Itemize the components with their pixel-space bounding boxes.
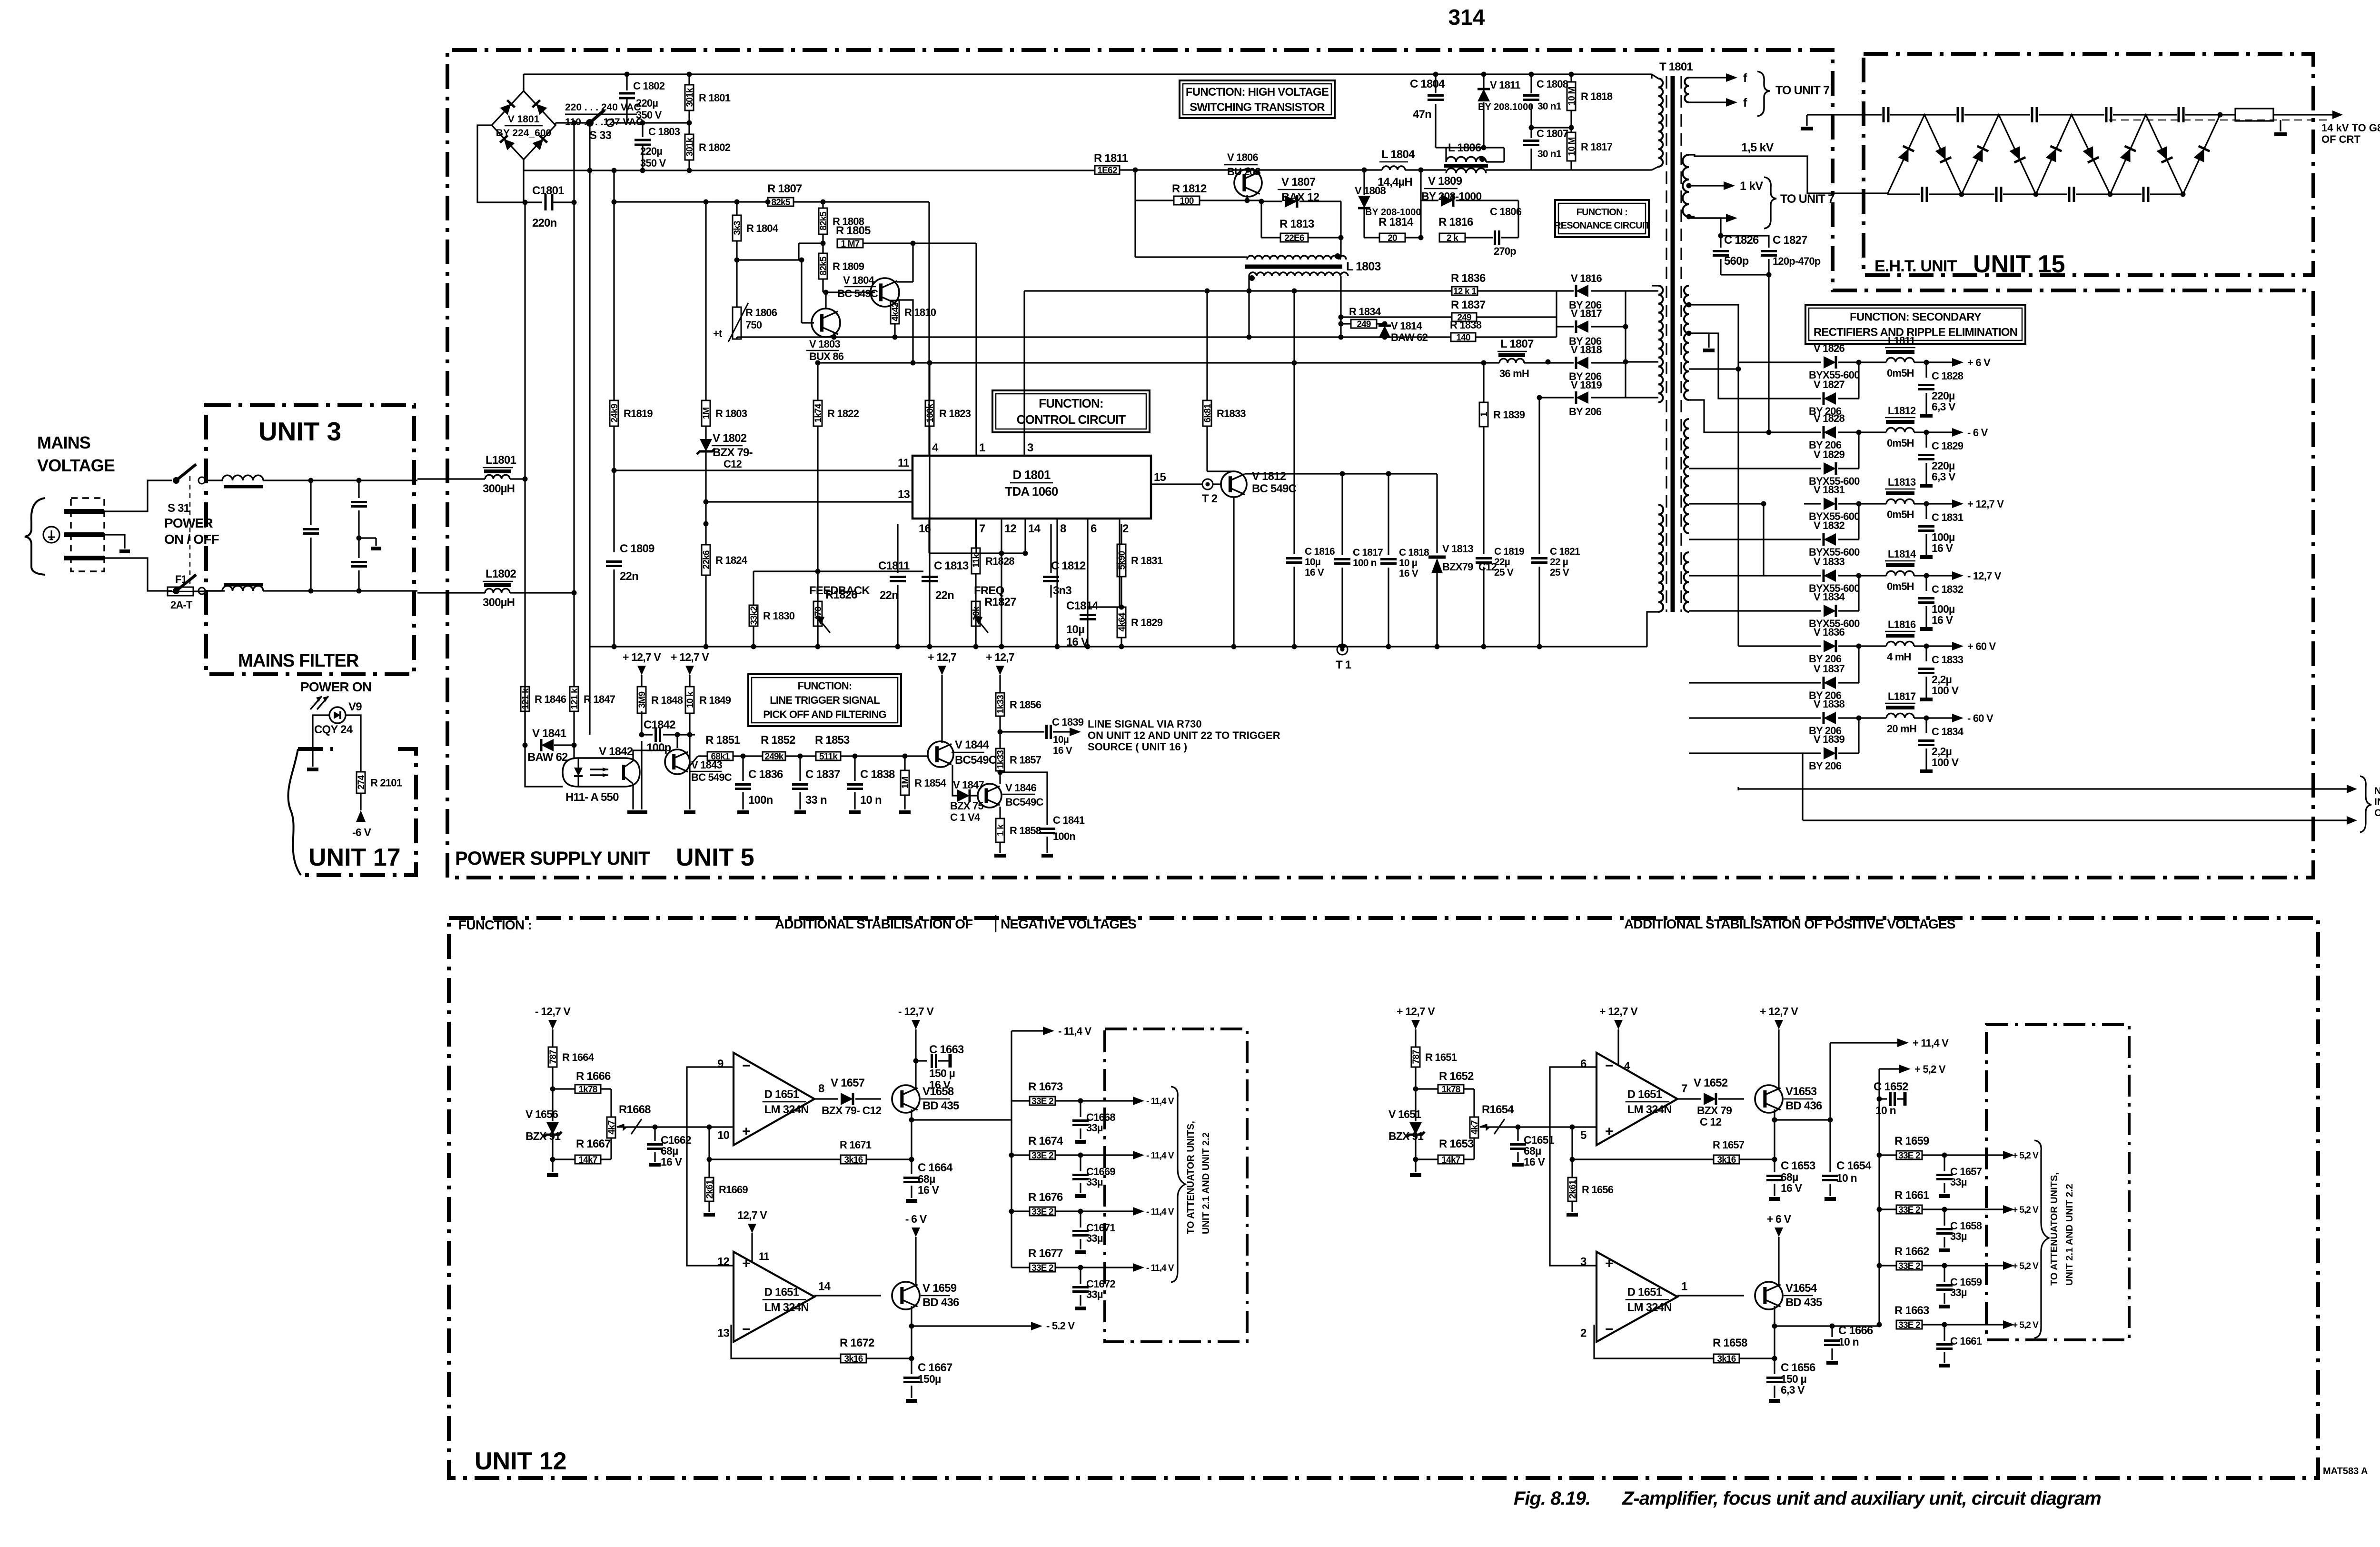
svg-text:R 1846: R 1846 [535, 693, 566, 705]
resistor R1817 [1567, 132, 1576, 161]
svg-text:12 k 1: 12 k 1 [1453, 287, 1477, 297]
svg-text:274: 274 [357, 775, 367, 790]
capacitor C 1659 33u [1944, 1266, 1945, 1282]
svg-text:100 V: 100 V [1932, 684, 1959, 697]
svg-text:RESONANCE CIRCUIT: RESONANCE CIRCUIT [1554, 220, 1650, 231]
optocoupler V1842 H11-A550 [563, 758, 640, 787]
svg-text:R 1805: R 1805 [836, 224, 871, 237]
svg-text:C 1837: C 1837 [805, 768, 840, 781]
svg-text:22n: 22n [620, 570, 638, 583]
svg-text:IN PM 3264: IN PM 3264 [2374, 797, 2380, 808]
wire V1843 emitter to divider [687, 768, 698, 769]
wire not-used output 2 [1802, 753, 1803, 820]
svg-text:V 1651: V 1651 [1388, 1108, 1421, 1120]
svg-text:LM 324N: LM 324N [764, 1301, 809, 1314]
svg-text:FUNCTION: SECONDARY: FUNCTION: SECONDARY [1850, 310, 1982, 323]
svg-text:16 V: 16 V [929, 1078, 951, 1091]
svg-text:SOURCE ( UNIT 16 ): SOURCE ( UNIT 16 ) [1088, 741, 1187, 753]
svg-text:V 1657: V 1657 [831, 1077, 865, 1089]
svg-text:C 1812: C 1812 [1051, 559, 1086, 572]
resistor R1833 [1206, 291, 1208, 400]
ground stub on secondary [1689, 332, 1709, 334]
svg-text:140: 140 [1456, 333, 1470, 343]
transistor V1844 BC549C [928, 741, 953, 767]
svg-text:787: 787 [1411, 1050, 1421, 1064]
svg-text:C1814: C1814 [1066, 599, 1099, 612]
IC D1801 TDA1060 [912, 456, 1151, 519]
svg-text:CONTROL CIRCUIT: CONTROL CIRCUIT [1017, 412, 1126, 427]
svg-text:301k: 301k [685, 88, 695, 107]
svg-text:V 1813: V 1813 [1442, 543, 1473, 555]
EHT multiplier diode [2120, 146, 2136, 162]
svg-text:11: 11 [759, 1250, 769, 1262]
svg-text:- 12,7 V: - 12,7 V [535, 1005, 571, 1018]
svg-text:R 1838: R 1838 [1450, 319, 1482, 331]
resistor R1846 [525, 676, 526, 687]
svg-text:ADDITIONAL STABILISATION OF: ADDITIONAL STABILISATION OF POSITIVE VOL… [1624, 917, 1955, 931]
svg-text:TO UNIT 7: TO UNIT 7 [1780, 192, 1834, 206]
svg-text:+ 5,2 V: + 5,2 V [2013, 1320, 2039, 1330]
capacitor C1656 150u 6,3V [1774, 1358, 1775, 1374]
svg-text:1k78: 1k78 [578, 1085, 597, 1095]
svg-text:R 1674: R 1674 [1028, 1135, 1063, 1148]
svg-text:33µ: 33µ [1086, 1288, 1103, 1300]
svg-text:220n: 220n [532, 217, 557, 230]
resistor R1831 [1117, 544, 1126, 577]
svg-text:R 1858: R 1858 [1010, 825, 1041, 837]
svg-text:R 1851: R 1851 [705, 734, 740, 747]
resistor R1824 [704, 521, 709, 527]
svg-text:T 1801: T 1801 [1659, 60, 1693, 73]
svg-text:UNIT 5: UNIT 5 [676, 844, 754, 871]
wire feedback row [754, 570, 923, 572]
resistor R1672 3k16 [911, 1326, 912, 1358]
EHT multiplier diode [2156, 146, 2173, 163]
EHT multiplier diode [1972, 146, 1989, 163]
svg-text:33µ: 33µ [1950, 1230, 1967, 1242]
svg-text:VOLTAGE: VOLTAGE [37, 456, 115, 475]
inductor L1806 lower winding in rail [1446, 169, 1486, 174]
capacitor C1667 150u [911, 1358, 912, 1374]
resistor R1809 [822, 243, 823, 253]
svg-text:BY 224_600: BY 224_600 [496, 128, 551, 139]
capacitor C 1661 33u [1944, 1325, 1945, 1341]
wire mains into PSU upper [417, 478, 485, 479]
svg-text:C 1654: C 1654 [1836, 1159, 1872, 1172]
transistor V1659 BD436 [814, 1295, 881, 1296]
svg-text:V 1652: V 1652 [1694, 1077, 1728, 1089]
UNIT 3 filter capacitor 3 [359, 537, 376, 539]
capacitor C1666 10n [1830, 1324, 1835, 1329]
function box HIGH VOLTAGE SWITCHING TRANSISTOR [1180, 80, 1335, 118]
svg-text:16 V: 16 V [1053, 745, 1072, 756]
wire emitter node [911, 1109, 912, 1120]
svg-text:10µ: 10µ [1305, 557, 1320, 568]
svg-text:33E 2: 33E 2 [1898, 1151, 1920, 1161]
wire 1.5 kV output [1689, 155, 1887, 193]
output arrow - 60 V [1926, 717, 1954, 719]
EHT output arrow 14kV [2273, 114, 2332, 115]
svg-text:R 1824: R 1824 [715, 554, 748, 566]
svg-text:16 V: 16 V [1524, 1156, 1546, 1168]
svg-text:C1811: C1811 [878, 559, 910, 572]
svg-text:OSCILLOSCO: OSCILLOSCO [2374, 808, 2380, 818]
wire +5.2V arrow [1944, 1208, 2005, 1210]
svg-text:12: 12 [717, 1256, 730, 1268]
svg-text:R 1837: R 1837 [1451, 299, 1486, 311]
svg-text:R1654: R1654 [1482, 1103, 1514, 1116]
svg-text:C 1833: C 1833 [1932, 654, 1963, 666]
svg-text:V 1809: V 1809 [1428, 175, 1462, 188]
resistor R1854 [902, 754, 908, 759]
capacitor C1841 [1000, 772, 1047, 825]
svg-text:+: + [742, 1124, 750, 1139]
svg-text:1M: 1M [901, 777, 911, 789]
svg-text:V 1816: V 1816 [1571, 272, 1602, 284]
svg-text:220 . . . 240 VAC: 220 . . . 240 VAC [565, 102, 641, 113]
svg-text:R 1809: R 1809 [833, 260, 864, 272]
diode V1811 BY208-1000 [1483, 74, 1484, 88]
svg-text:C 1663: C 1663 [929, 1043, 964, 1056]
svg-text:V 1837: V 1837 [1814, 663, 1844, 675]
filter inductor L1817 [1859, 717, 1886, 719]
svg-text:FUNCTION:: FUNCTION: [798, 680, 852, 692]
wire C1801 right vertical [573, 123, 575, 687]
svg-text:+ 12,7 V: + 12,7 V [671, 651, 709, 663]
wire C1807/R1818 mid node [1531, 127, 1571, 128]
svg-text:BZX 91: BZX 91 [1388, 1130, 1424, 1142]
test point T2 [1202, 479, 1213, 489]
mains plug dashed outline [71, 498, 104, 571]
svg-text:C 1804: C 1804 [1410, 78, 1445, 90]
svg-text:R 1806: R 1806 [745, 307, 777, 319]
ground [1939, 1364, 1950, 1367]
svg-text:MAINS: MAINS [37, 433, 90, 452]
svg-text:PICK OFF AND FILTERING: PICK OFF AND FILTERING [763, 709, 886, 720]
svg-text:4 mH: 4 mH [1887, 651, 1911, 663]
wire to IC pin 3 [1023, 291, 1025, 456]
svg-text:C 1656: C 1656 [1781, 1361, 1815, 1374]
svg-text:V 1833: V 1833 [1814, 556, 1844, 568]
svg-text:R 1659: R 1659 [1894, 1135, 1929, 1148]
svg-text:C 1829: C 1829 [1932, 440, 1963, 452]
svg-text:10 µ: 10 µ [1399, 558, 1417, 569]
UNIT 17 dash-dot border [305, 749, 416, 875]
svg-text:R 1839: R 1839 [1493, 409, 1525, 421]
svg-text:UNIT 3: UNIT 3 [258, 417, 341, 446]
svg-text:RECTIFIERS AND RIPPLE ELIMI: RECTIFIERS AND RIPPLE ELIMINATION [1814, 326, 2017, 339]
svg-text:47n: 47n [1413, 108, 1431, 121]
svg-text:C 1838: C 1838 [860, 768, 895, 781]
E.H.T. UNIT 15 dash-dot border [1864, 54, 2313, 275]
svg-text:Z-amplifier, focus unit and au: Z-amplifier, focus unit and auxiliary un… [1622, 1488, 2101, 1509]
svg-text:C 1813: C 1813 [934, 559, 969, 572]
svg-text:L1812: L1812 [1888, 405, 1916, 417]
svg-text:R 1664: R 1664 [562, 1051, 595, 1063]
svg-text:SWITCHING TRANSISTOR: SWITCHING TRANSISTOR [1190, 101, 1325, 114]
svg-text:10 M: 10 M [1567, 87, 1577, 105]
wire emitter node [1774, 1109, 1775, 1120]
svg-text:121 k: 121 k [570, 688, 580, 709]
wire feedback to pin 13 [731, 1325, 841, 1358]
ground [1920, 555, 1933, 559]
svg-text:14 kV TO G8-: 14 kV TO G8- [2321, 122, 2380, 134]
svg-text:100p: 100p [646, 741, 671, 754]
mains plug pin earth [64, 532, 104, 537]
wire R1807 feed row [689, 201, 766, 202]
ground [1410, 1173, 1421, 1177]
transistor V1812 BC549C [1213, 483, 1221, 485]
svg-text:10 M: 10 M [1567, 137, 1577, 156]
resistor R1856 [996, 693, 1004, 716]
svg-text:V 1811: V 1811 [1490, 79, 1520, 91]
capacitor C1671 33u [1080, 1211, 1081, 1228]
capacitor C1838 [854, 756, 855, 781]
wire V1809 feed [1420, 170, 1421, 238]
svg-text:FREQ: FREQ [974, 584, 1004, 597]
svg-text:C 1808: C 1808 [1537, 78, 1568, 90]
svg-text:2: 2 [1580, 1327, 1587, 1340]
svg-text:L 1803: L 1803 [1346, 260, 1381, 273]
ground [1939, 1194, 1950, 1198]
svg-text:R 1817: R 1817 [1581, 141, 1613, 153]
switch S33 [586, 119, 594, 127]
op-amp D1651 (upper negative) [734, 1053, 814, 1145]
resistor R1849 [685, 687, 694, 713]
wire pin13 row [706, 501, 912, 502]
svg-text:MAINS FILTER: MAINS FILTER [238, 651, 359, 671]
svg-text:750: 750 [745, 319, 762, 331]
brace TO UNIT 7 upper [1757, 71, 1770, 116]
svg-text:BD 435: BD 435 [922, 1099, 959, 1112]
resistor R1858 [999, 807, 1001, 818]
svg-text:3k16: 3k16 [1717, 1155, 1735, 1165]
svg-text:E.H.T. UNIT: E.H.T. UNIT [1874, 257, 1957, 275]
filter inductor L1814 [1859, 575, 1886, 576]
IC pin15 to T2 and V1812 [1151, 483, 1203, 485]
ground [1075, 1250, 1086, 1254]
svg-text:220µ: 220µ [640, 145, 662, 157]
wire bridge top to rail [523, 74, 524, 91]
svg-text:300µH: 300µH [483, 482, 515, 495]
transformer L1803 core bar [1245, 265, 1342, 269]
svg-text:C 1809: C 1809 [620, 542, 654, 555]
svg-text:0m5H: 0m5H [1887, 437, 1914, 449]
svg-text:R 1848: R 1848 [651, 694, 683, 706]
svg-text:BD 436: BD 436 [922, 1296, 959, 1309]
svg-text:249k: 249k [764, 752, 783, 762]
svg-text:5: 5 [1580, 1129, 1587, 1142]
svg-text:V 1804: V 1804 [843, 274, 874, 286]
svg-text:V 1829: V 1829 [1814, 449, 1844, 460]
transformer secondary winding bottom [1684, 552, 1689, 612]
wire rectifier column left link [1556, 291, 1557, 337]
UNIT 3 filter capacitor 2 [358, 480, 359, 498]
svg-text:25 V: 25 V [1494, 567, 1514, 578]
capacitor C1821 [1538, 398, 1540, 554]
svg-text:TO UNIT 7: TO UNIT 7 [1775, 84, 1829, 97]
svg-text:POWER SUPPLY UNIT: POWER SUPPLY UNIT [455, 848, 650, 869]
mains plug pin L [64, 509, 104, 514]
svg-text:C 1832: C 1832 [1932, 583, 1963, 595]
ground [1075, 1194, 1086, 1198]
svg-text:560p: 560p [1724, 255, 1749, 268]
svg-text:2A-T: 2A-T [170, 599, 193, 611]
svg-text:LM 324N: LM 324N [1627, 1301, 1672, 1314]
svg-text:300µH: 300µH [483, 596, 515, 609]
svg-text:R 1662: R 1662 [1894, 1245, 1929, 1258]
svg-text:R 1823: R 1823 [939, 408, 971, 419]
svg-text:BUX 86: BUX 86 [809, 350, 844, 362]
wire C1826/C1827 bottom [1721, 274, 1769, 275]
capacitor C1672 33u [1080, 1268, 1081, 1284]
svg-text:30 n1: 30 n1 [1537, 101, 1562, 112]
wire feedback R1671 [911, 1120, 912, 1159]
svg-text:R 1657: R 1657 [1713, 1139, 1745, 1151]
transistor V1653 BD436 [1755, 1085, 1783, 1113]
svg-text:V 1812: V 1812 [1252, 470, 1286, 483]
svg-text:100 V: 100 V [1932, 756, 1959, 769]
svg-text:270p: 270p [1494, 245, 1516, 257]
resistor R1829 [1117, 607, 1126, 638]
resistor R1651 787 [1411, 1047, 1420, 1067]
svg-text:787: 787 [548, 1050, 558, 1064]
diode V1808 BY208-1000 [1362, 168, 1367, 173]
svg-text:- 11,4 V: - 11,4 V [1058, 1025, 1092, 1037]
svg-text:100: 100 [1180, 196, 1194, 206]
svg-text:FUNCTION :: FUNCTION : [458, 918, 532, 932]
transistor V1806 BU208 [1234, 169, 1262, 197]
svg-text:4k42: 4k42 [891, 303, 901, 321]
svg-text:- 6 V: - 6 V [1967, 427, 1988, 439]
capacitor C1819 [1476, 557, 1492, 559]
svg-text:R 1822: R 1822 [827, 408, 859, 419]
capacitor C1653 68u 16V [1774, 1159, 1775, 1172]
svg-text:10: 10 [717, 1129, 730, 1142]
svg-text:R 1652: R 1652 [1439, 1070, 1474, 1083]
svg-text:16 V: 16 V [661, 1156, 683, 1168]
svg-text:+t: +t [713, 328, 723, 339]
svg-text:L1801: L1801 [486, 454, 516, 467]
output arrow - 6 V [1926, 431, 1954, 433]
EHT multiplier diode [2045, 146, 2062, 162]
svg-text:6,3 V: 6,3 V [1781, 1384, 1805, 1396]
svg-text:BY 206: BY 206 [1809, 760, 1842, 772]
svg-text:33E 2: 33E 2 [1031, 1097, 1053, 1107]
svg-text:22k6: 22k6 [702, 550, 712, 569]
output arrow - 12,7 V [1926, 575, 1954, 576]
svg-text:C 1831: C 1831 [1932, 511, 1963, 523]
svg-text:0m5H: 0m5H [1887, 580, 1914, 592]
mains plug pin N [64, 556, 104, 560]
svg-text:1: 1 [1681, 1280, 1687, 1293]
svg-text:C 1819: C 1819 [1494, 546, 1524, 557]
svg-text:6: 6 [1580, 1058, 1587, 1070]
svg-text:3: 3 [1580, 1256, 1587, 1268]
wire +5.2V distribution row [1775, 1325, 1879, 1327]
svg-text:S 33: S 33 [589, 129, 612, 142]
wire -11.4V arrow [1081, 1210, 1135, 1212]
output arrow + 60 V [1926, 645, 1954, 647]
svg-text:0m5H: 0m5H [1887, 509, 1914, 520]
ground [906, 1399, 917, 1403]
EHT top rail with series capacitors [1807, 114, 1882, 115]
svg-text:1k74: 1k74 [813, 403, 823, 422]
svg-text:R 1656: R 1656 [1582, 1184, 1614, 1196]
svg-text:C 1661: C 1661 [1950, 1335, 1982, 1347]
ground [1826, 1361, 1838, 1365]
svg-text:ADDITIONAL STABILISATION OF: ADDITIONAL STABILISATION OF [775, 917, 973, 931]
svg-text:BD 435: BD 435 [1785, 1296, 1822, 1309]
svg-text:C 1816: C 1816 [1305, 546, 1335, 557]
svg-text:R 1849: R 1849 [699, 694, 731, 706]
svg-text:100n: 100n [748, 794, 773, 807]
wire to -11.4V distribution [912, 1031, 1011, 1120]
svg-text:1 M7: 1 M7 [841, 239, 859, 249]
svg-text:10 n: 10 n [1875, 1104, 1896, 1117]
ground [1075, 1307, 1086, 1310]
resistor R1818 [1570, 74, 1572, 82]
mains plug brace [25, 498, 45, 575]
svg-text:+ 5,2 V: + 5,2 V [2013, 1151, 2039, 1161]
svg-text:C 1841: C 1841 [1053, 814, 1085, 826]
svg-text:V 1832: V 1832 [1814, 519, 1844, 531]
svg-text:33µ: 33µ [1950, 1176, 1967, 1188]
svg-text:R 1853: R 1853 [815, 734, 850, 747]
wire -11.4V arrow [1081, 1267, 1135, 1268]
svg-text:314: 314 [1448, 5, 1485, 30]
svg-text:BZX 79: BZX 79 [1697, 1104, 1732, 1117]
wire V1844 emitter to V1847 [952, 765, 957, 796]
wire -11.4V arrow [1081, 1100, 1135, 1101]
svg-text:- 11,4 V: - 11,4 V [1146, 1263, 1174, 1273]
output arrow + 12,7 V [1926, 503, 1954, 504]
wire emitter node lower [911, 1306, 912, 1326]
transistor V1846 BC549C [978, 784, 1002, 808]
svg-text:14: 14 [1028, 522, 1041, 535]
svg-text:33E 2: 33E 2 [1898, 1261, 1920, 1271]
svg-text:BAW 62: BAW 62 [1391, 331, 1428, 343]
function box SECONDARY RECTIFIERS AND RIPPLE ELIMINATION [1805, 305, 2025, 344]
arrow +5.2V top [1879, 1068, 1901, 1069]
svg-text:150 µ: 150 µ [929, 1067, 955, 1079]
capacitor C1842 [641, 687, 642, 713]
svg-text:1: 1 [1479, 411, 1489, 417]
svg-text:R 1677: R 1677 [1028, 1247, 1063, 1260]
svg-text:1k33: 1k33 [996, 750, 1006, 769]
capacitor C1827 [1721, 236, 1769, 248]
row R1837 [1341, 316, 1451, 318]
svg-text:L1802: L1802 [486, 568, 516, 580]
svg-text:6,3 V: 6,3 V [1932, 470, 1956, 483]
svg-text:V 1836: V 1836 [1814, 626, 1844, 638]
svg-text:R 1830: R 1830 [763, 610, 795, 622]
svg-text:33k2: 33k2 [749, 606, 759, 625]
svg-text:16 V: 16 V [918, 1184, 940, 1196]
transformer L1803 secondary winding [1249, 272, 1348, 276]
svg-text:4: 4 [932, 441, 939, 454]
filter capacitor C 1828 [1925, 362, 1927, 378]
svg-text:LINE TRIGGER SIGNAL: LINE TRIGGER SIGNAL [770, 694, 880, 706]
svg-text:R 1671: R 1671 [840, 1139, 872, 1151]
filter inductor L1812 [1859, 431, 1886, 433]
svg-text:V1653: V1653 [1785, 1085, 1817, 1098]
wire rectifier column right link [1625, 291, 1626, 398]
transformer primary winding lower [1658, 505, 1663, 612]
svg-text:3k16: 3k16 [844, 1354, 863, 1364]
svg-text:R 1653: R 1653 [1439, 1138, 1474, 1150]
svg-text:- 5.2 V: - 5.2 V [1046, 1320, 1075, 1332]
